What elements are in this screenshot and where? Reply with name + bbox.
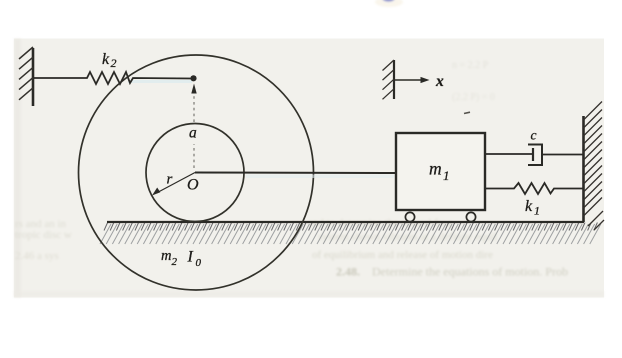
svg-text:0: 0 — [196, 257, 202, 269]
svg-text:c: c — [531, 128, 537, 143]
svg-text:k: k — [525, 198, 533, 215]
svg-text:I: I — [187, 249, 194, 266]
svg-text:2: 2 — [111, 56, 117, 70]
svg-text:a: a — [189, 125, 197, 142]
svg-text:r: r — [167, 172, 173, 188]
svg-text:Determine the equations of mot: Determine the equations of motion. Prob — [372, 265, 568, 279]
svg-text:2.46 a sys: 2.46 a sys — [15, 250, 59, 262]
svg-text:1: 1 — [534, 204, 540, 218]
svg-text:m: m — [429, 159, 442, 179]
svg-text:m: m — [161, 248, 171, 264]
svg-text:x: x — [435, 73, 444, 90]
svg-text:2: 2 — [172, 256, 178, 268]
svg-text:k: k — [102, 51, 110, 68]
svg-text:n = 2.2 P: n = 2.2 P — [452, 60, 489, 71]
svg-text:1: 1 — [443, 168, 450, 183]
svg-text:O: O — [187, 177, 199, 194]
svg-text:2.48.: 2.48. — [336, 265, 360, 279]
svg-text:tropic disc w: tropic disc w — [15, 229, 72, 241]
svg-text:(2.2 P) = 0: (2.2 P) = 0 — [452, 92, 495, 103]
svg-text:of equilibrium and release of: of equilibrium and release of motion dir… — [312, 249, 493, 261]
